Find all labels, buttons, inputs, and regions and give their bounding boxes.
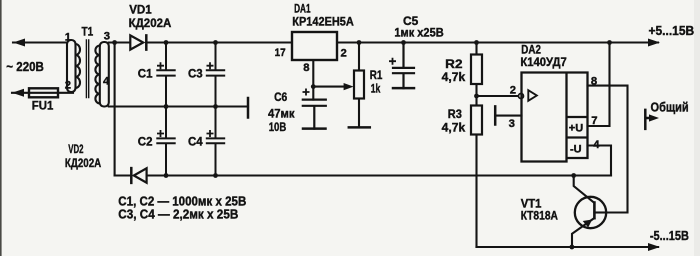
svg-text:4,7k: 4,7k [442,120,466,134]
arrow: mains bottom (left) [12,89,24,97]
transistor VT1 base bar [593,203,596,219]
svg-text:КТ818А: КТ818А [521,209,558,223]
svg-text:C4: C4 [188,135,203,149]
common terminal bar under C5 [393,87,414,90]
arrow: VT1 emitter (PNP) [583,220,593,228]
svg-text:4: 4 [593,139,600,151]
wire: mains input bottom through fuse [12,92,73,94]
transistor VT1 emitter lead [572,218,594,247]
plus C4 [207,130,214,137]
common terminal bar of mid rail [247,98,250,118]
svg-text:DA1: DA1 [294,1,311,15]
op-amp DA2 box [522,73,588,162]
wire: VT1 base from raw negative rail [574,176,595,203]
common terminal bar under R1 [349,126,370,129]
plus C2 [157,130,164,137]
svg-text:1: 1 [65,31,71,43]
diode VD2 [115,174,611,176]
diode VD1 [130,35,143,49]
transistor VT1 collector lead [594,211,606,213]
transformer T1 core [86,40,88,98]
plus signs of electrolytic capacitors [157,58,396,137]
faint right edge band [694,0,700,256]
svg-text:КР142ЕН5А: КР142ЕН5А [292,15,354,29]
resistor R2 [471,55,482,85]
wire: DA1 pin8 down and wiper to R1 [313,60,349,100]
svg-text:КД202А: КД202А [65,156,102,170]
arrow: mains top (left) [13,39,25,47]
plus C5 [389,58,396,65]
capacitor C2 [157,107,174,176]
svg-text:+U: +U [569,123,583,135]
arrow: R1 wiper [344,83,354,90]
transistor VT1 circle [575,197,606,228]
wire: pin3 bar to DA2 [495,115,521,117]
plus C3 [207,62,214,69]
svg-text:1мк x25В: 1мк x25В [394,25,444,39]
wire: negative output rail [477,246,659,248]
svg-text:VD1: VD1 [129,3,152,17]
wire: pin3 node down to VD2 cathode [114,43,116,176]
potentiometer R1 [354,71,364,99]
common output terminal bar [645,109,650,131]
common terminal bar under C6 [303,127,326,130]
inversion circle at DA2 pin 2 [519,94,524,99]
svg-text:Общий: Общий [651,100,689,114]
svg-text:47мк: 47мк [268,107,295,121]
wire: mains input top [13,41,67,43]
svg-text:3: 3 [509,118,515,130]
svg-text:-U: -U [570,143,582,155]
wire: top rail from secondary pin3 to VD1 [109,41,130,43]
resistor R3 [471,106,482,135]
svg-text:8: 8 [591,75,597,87]
svg-text:4: 4 [103,76,110,88]
svg-text:7: 7 [591,115,597,127]
arrow: -5...15V output (right) [648,243,660,251]
svg-text:+5...15В: +5...15В [649,24,695,38]
svg-text:3: 3 [104,31,110,43]
svg-text:VD2: VD2 [68,142,83,156]
svg-text:C6: C6 [274,90,287,104]
svg-text:C1, C2 — 1000мк x 25В: C1, C2 — 1000мк x 25В [118,194,246,208]
transformer T1 secondary winding [100,42,109,107]
arrowheads [12,39,660,252]
capacitor C3 [207,43,224,107]
wire: DA2 pin4 to raw negative rail [588,146,612,176]
svg-text:2: 2 [341,48,347,60]
svg-text:C1: C1 [138,67,153,81]
svg-text:C3, C4 — 2,2мк x 25В: C3, C4 — 2,2мк x 25В [118,208,238,222]
wire: DA2 pin8 to VT1 collector [588,86,628,213]
svg-text:10В: 10В [269,120,287,134]
svg-text:2: 2 [65,80,71,92]
capacitor C1 [157,43,174,107]
op-amp triangle symbol [528,90,537,101]
svg-text:4,7k: 4,7k [442,70,466,84]
arrow: common output [649,114,659,121]
scan artifact: dark left edge [0,0,2,256]
wire: common mid rail from secondary pin4 [109,105,248,107]
svg-text:17: 17 [275,47,286,59]
capacitor C6 [303,100,326,129]
common terminal bar at DA2 pin3 [494,106,497,124]
svg-text:КД202А: КД202А [129,16,172,30]
wire: DA2 pin7 to +rail [588,43,610,127]
wire: R2/R3 node to DA2 pin2 [477,95,519,97]
wire: top rail from VD1 to output arrow [146,41,658,43]
svg-text:К140УД7: К140УД7 [520,55,567,69]
plus C6 [303,89,310,96]
svg-text:-5...15В: -5...15В [650,229,689,243]
regulator DA1 box [292,32,337,60]
capacitor C5 [393,43,414,89]
svg-text:R3: R3 [448,107,462,121]
svg-text:R1: R1 [370,68,383,82]
svg-text:1k: 1k [371,81,381,95]
svg-text:~ 220В: ~ 220В [6,60,44,74]
svg-text:FU1: FU1 [32,99,54,113]
svg-text:2: 2 [510,84,516,96]
svg-text:R2: R2 [445,57,463,71]
transformer T1 primary winding [67,40,76,92]
arrow: +5...15V output (right) [648,39,660,47]
wire: R3 bottom down to negative output rail [475,135,477,248]
svg-text:C2: C2 [138,135,153,149]
svg-text:Т1: Т1 [82,25,94,39]
plus C1 [157,62,164,69]
fuse FU1 [29,88,58,97]
svg-text:C3: C3 [188,67,203,81]
svg-text:8: 8 [303,62,309,74]
capacitor C4 [207,107,224,176]
